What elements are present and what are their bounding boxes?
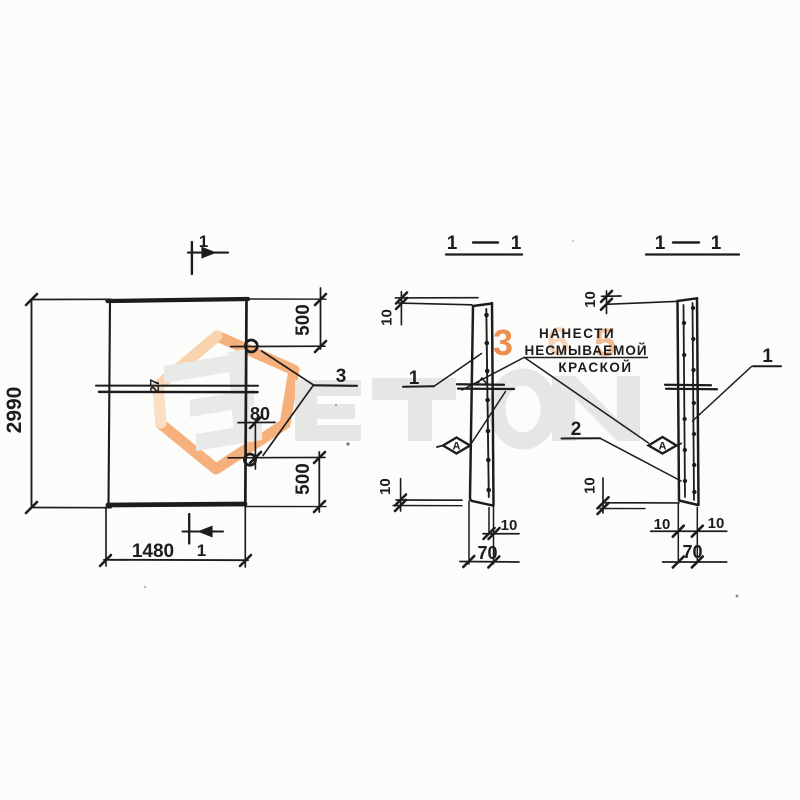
MIDDLE VIEW: [446, 253, 522, 255]
ink layer: [26, 242, 781, 568]
E: [295, 380, 317, 441]
svg-text:1: 1: [199, 232, 208, 251]
panel: [470, 306, 493, 506]
svg-text:500: 500: [293, 304, 314, 336]
label 2: [562, 437, 601, 439]
svg-text:2: 2: [571, 419, 582, 440]
svg-text:КРАСКОЙ: КРАСКОЙ: [558, 360, 632, 375]
svg-text:10: 10: [654, 516, 671, 533]
svg-text:70: 70: [682, 542, 702, 562]
logo hexagon: [158, 336, 294, 469]
500 bottom: [318, 452, 320, 512]
svg-text:10: 10: [582, 291, 599, 308]
svg-text:1480: 1480: [132, 541, 174, 562]
section mark top: [191, 242, 193, 274]
text leader 2 to right diamond: [525, 358, 649, 444]
svg-text:3: 3: [336, 366, 347, 387]
scan specks: [144, 240, 739, 597]
watermark group: [158, 320, 640, 469]
svg-text:1: 1: [447, 233, 458, 254]
2990 dimension: [31, 300, 33, 508]
svg-text:2990: 2990: [3, 387, 26, 434]
svg-text:80: 80: [250, 404, 270, 424]
N: [552, 376, 575, 441]
svg-text:1: 1: [762, 346, 773, 367]
500 top: [248, 298, 326, 300]
svg-text:1: 1: [511, 233, 522, 254]
logo inner S slabs: [164, 349, 262, 451]
svg-text:10: 10: [501, 517, 518, 534]
bottom-left 10: [396, 499, 462, 501]
orange digits 365: [493, 320, 616, 365]
middle double lines: [96, 385, 258, 387]
svg-text:27: 27: [147, 379, 162, 393]
svg-text:3: 3: [493, 322, 513, 363]
svg-text:10: 10: [708, 515, 725, 532]
loops: [245, 340, 257, 352]
bottom-left 10 right view: [603, 502, 679, 504]
top 10 dim: [395, 297, 478, 299]
1480 dim: [105, 507, 107, 566]
80 dim: [238, 421, 275, 423]
RIGHT VIEW: [646, 253, 739, 255]
section mark bottom: [188, 514, 190, 544]
svg-text:70: 70: [477, 543, 497, 563]
label 1 right: [753, 365, 781, 367]
svg-text:1: 1: [409, 368, 420, 389]
svg-text:500: 500: [293, 463, 314, 495]
diamond A right: [649, 437, 677, 454]
T: [372, 378, 456, 400]
leaders to 3: [262, 351, 314, 385]
rebar dots: [484, 313, 491, 493]
svg-text:10: 10: [582, 477, 599, 494]
svg-text:НАНЕСТИ: НАНЕСТИ: [539, 326, 615, 341]
break lines: [457, 383, 504, 386]
O: [497, 377, 549, 441]
panel: [678, 301, 680, 501]
svg-text:НЕСМЫВАЕМОЙ: НЕСМЫВАЕМОЙ: [524, 343, 647, 358]
bottom dims: [488, 508, 490, 535]
svg-text:10: 10: [377, 478, 394, 495]
break lines: [665, 384, 711, 387]
label 1: [403, 385, 434, 388]
svg-text:A: A: [453, 441, 461, 453]
svg-text:1: 1: [197, 541, 206, 560]
letters ETON: [295, 376, 640, 441]
svg-text:1: 1: [655, 233, 666, 254]
svg-text:10: 10: [379, 309, 396, 326]
svg-text:A: A: [659, 441, 667, 453]
rect panel: [108, 299, 249, 301]
text leader: [462, 358, 524, 391]
top 10 dim: [602, 295, 622, 297]
diamond A: [443, 438, 470, 454]
bottom dims right view: [677, 503, 679, 563]
svg-text:1: 1: [711, 233, 722, 254]
